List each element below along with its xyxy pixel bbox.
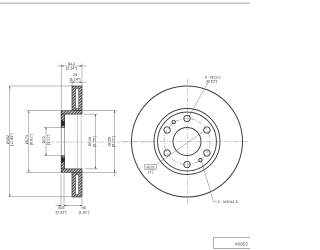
leader 2 x M10x1.5 [202,162,218,202]
svg-text:[6.81"]: [6.81"] [29,134,33,145]
hub bore circle [173,128,201,156]
service hole 300 [199,159,202,162]
dimension 29 top [70,79,87,87]
svg-text:[0.52"]: [0.52"] [207,80,218,84]
svg-text:[11.89"]: [11.89"] [10,133,14,146]
svg-text:www dynamicfriction com br: www dynamicfriction com brake rotor draw… [46,140,152,144]
svg-text:[4"]: [4"] [148,170,153,174]
svg-text:[1.81"]: [1.81"] [79,210,90,214]
front view vertical centerline [186,79,188,204]
svg-text:29: 29 [73,73,77,77]
svg-text:[1.14"]: [1.14"] [70,77,81,81]
section friction ring bottom block [72,172,82,197]
bolt circle dash-dot [164,119,210,165]
dimension diameter 302 left [9,86,73,197]
svg-text:Ø173: Ø173 [25,135,29,144]
dimension diameter 173 left [26,111,61,173]
front view horizontal centerline [123,141,250,143]
hat outer circle [154,109,220,175]
bolt hole 30 [204,127,210,133]
bolt hole 90 [184,115,190,121]
section hat wall bottom bar [61,169,82,173]
dimension 8.3 bottom [56,174,65,209]
dimension diameter 79 left [44,127,62,155]
svg-text:48052: 48052 [235,242,249,248]
section interior silhouette lines [77,114,81,169]
boxed label diameter 102 [145,131,205,174]
section bolt hole dark top [61,121,64,126]
hat inner circle [158,112,217,171]
svg-text:8.3: 8.3 [58,206,63,210]
svg-text:2 - M10x1.5: 2 - M10x1.5 [218,200,238,204]
svg-text:[0.33"]: [0.33"] [56,210,67,214]
dimension diameter inner right 2 [83,111,117,177]
svg-text:54.2: 54.2 [68,62,75,66]
section friction ring top block [72,86,82,111]
bolt hole 210 [164,150,170,156]
dimension 54.2 top [58,64,87,111]
bolt hole 270 [184,161,190,167]
dimension diameter inner right 1 [83,114,98,169]
dimension 46 bottom [64,199,82,209]
bolt hole 330 [204,150,210,156]
svg-text:46: 46 [82,206,86,210]
service hole 120 [172,120,175,123]
leader 6 x diameter 13.2 [189,81,209,116]
outer circle [132,86,243,197]
bolt hole 150 [164,127,170,133]
svg-text:Ø302: Ø302 [6,135,10,144]
section mounting flange [61,114,64,169]
svg-text:Ø102: Ø102 [146,165,154,169]
section hat wall top bar [61,111,82,115]
section bolt hole dark bottom [61,158,64,163]
top border line [0,2,250,4]
svg-text:[2.14"]: [2.14"] [66,67,77,71]
part number box [214,238,251,249]
